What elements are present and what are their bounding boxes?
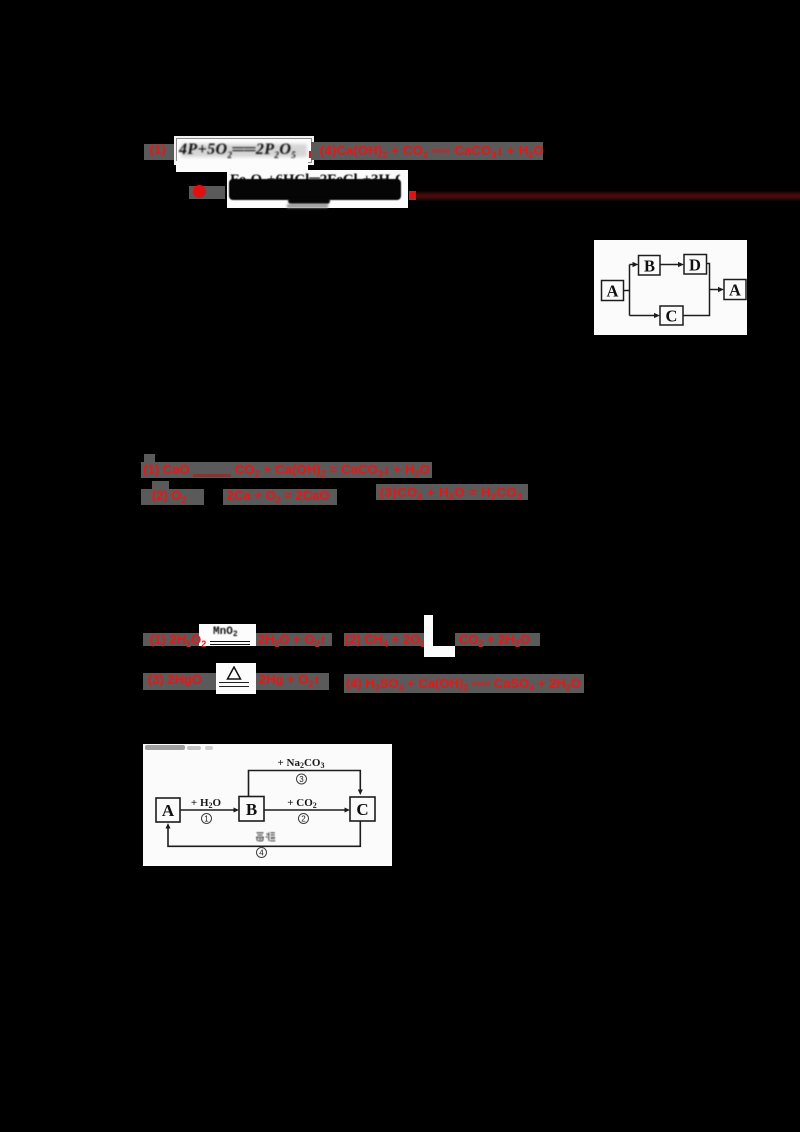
arrowhead B (633, 262, 639, 267)
gray strip behind (1) (144, 144, 175, 160)
white MnO2 condition box (199, 624, 256, 646)
handwriting in box 1 (181, 144, 307, 157)
svg-text:B: B (246, 800, 257, 819)
svg-text:+ CO2: + CO2 (287, 797, 317, 810)
svg-text:C: C (666, 307, 678, 326)
arrowhead D (678, 262, 684, 267)
white answer box 1 (176, 138, 312, 163)
red period square (410, 192, 416, 199)
gray strip line 1 equation (311, 142, 543, 160)
box B (239, 797, 264, 822)
arrow A to B (180, 809, 235, 811)
white answer box 2 (227, 170, 408, 208)
box A left (602, 281, 624, 301)
line 1 (141, 462, 432, 478)
right equation (4) (344, 674, 584, 693)
red comma (309, 151, 315, 158)
box A (156, 798, 180, 822)
arrow B to C (264, 809, 346, 811)
dark red blank underline (193, 474, 231, 478)
svg-text:C: C (356, 800, 368, 819)
circled numbers (202, 774, 309, 858)
red equation line 1 (320, 144, 544, 157)
gray smudge below box 2 (287, 204, 328, 208)
arrowhead C (654, 313, 660, 318)
box C (660, 306, 683, 325)
svg-text:A: A (729, 281, 741, 300)
arrowhead into B (234, 808, 240, 813)
line 2 (141, 489, 204, 505)
arrow to C (630, 315, 657, 317)
black redaction blob in box 2 (229, 179, 401, 200)
label gaowen (blurred) (256, 832, 275, 841)
top path B up over to C (249, 771, 361, 797)
svg-text:A: A (607, 282, 619, 301)
right equation (2) (344, 633, 424, 647)
arrowhead A right (718, 287, 724, 292)
svg-text:1: 1 (204, 815, 209, 824)
arrowhead up into A bottom (166, 823, 171, 829)
white bar (424, 615, 433, 647)
wire D to right vertical (683, 264, 710, 316)
handwriting blob in box 2 (230, 172, 400, 206)
wire A to vertical (624, 290, 630, 292)
box B (639, 256, 661, 276)
arrow into A right (710, 289, 721, 291)
box A right (724, 280, 746, 300)
svg-text:4: 4 (259, 849, 264, 858)
red label (1) (150, 143, 166, 156)
svg-text:+ H2O: + H2O (191, 797, 222, 810)
arrow into B (630, 264, 636, 266)
maroon underline band (416, 191, 800, 201)
red bullet circle (193, 185, 206, 198)
svg-text:A: A (162, 801, 175, 820)
gray patch behind red bullet (189, 186, 225, 199)
white bridge under box1 (176, 161, 308, 172)
box C (350, 797, 375, 821)
svg-text:3: 3 (299, 775, 304, 784)
arrowhead into C (345, 808, 351, 813)
svg-text:D: D (689, 256, 701, 275)
faint smudge remnants top-left (145, 745, 213, 750)
svg-text:B: B (644, 257, 655, 276)
bottom path C down left up to A (168, 821, 360, 846)
arrowhead down into C top (358, 790, 363, 796)
svg-text:2: 2 (301, 815, 306, 824)
arrow B to D (660, 264, 680, 266)
white delta condition box (216, 663, 256, 694)
left vertical wire (629, 265, 631, 316)
box D (684, 255, 707, 275)
